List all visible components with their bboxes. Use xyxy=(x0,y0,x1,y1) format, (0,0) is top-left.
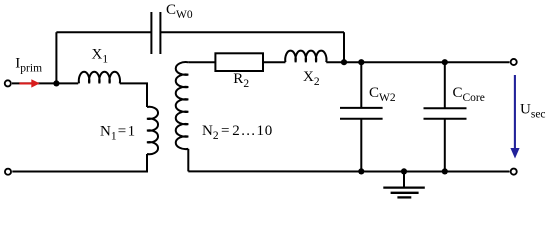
wire X2 to top-right terminal xyxy=(326,61,509,63)
wire bottom rail xyxy=(188,170,509,172)
capacitor CCore top lead xyxy=(444,62,446,108)
wire input left to junction xyxy=(12,82,56,84)
wire CW0 right plate to right drop xyxy=(160,31,344,33)
wire junction up to top row xyxy=(55,32,57,83)
capacitor CCore top plate xyxy=(424,107,467,109)
wire secondary bottom down to bottom rail xyxy=(187,149,189,172)
junction dot A (input node) xyxy=(53,80,59,86)
capacitor CCore bottom plate xyxy=(424,118,467,120)
ground lead xyxy=(403,171,405,187)
capacitor CW0 right plate xyxy=(159,12,161,54)
wire primary bottom to bottom-left terminal xyxy=(12,154,147,172)
capacitor CW2 bottom lead xyxy=(360,119,362,172)
wire drop from top row to X2 node xyxy=(343,32,345,62)
terminal input top xyxy=(5,80,11,86)
wire X1 to primary corner xyxy=(120,83,147,107)
junction dot D (CCore top) xyxy=(442,59,448,65)
terminal input bottom xyxy=(5,169,11,175)
current arrow Iprim xyxy=(19,79,39,87)
capacitor CW0 left plate xyxy=(150,12,152,54)
junction dot F (ground node) xyxy=(401,168,407,174)
wire junction to X1 xyxy=(56,82,78,84)
capacitor CW2 top lead xyxy=(360,62,362,108)
capacitor CW2 top plate xyxy=(340,107,383,109)
terminal output top xyxy=(511,59,517,65)
wire R2 to X2 xyxy=(263,61,285,63)
voltage arrow Usec xyxy=(510,75,519,159)
junction dot C (CW2 top) xyxy=(358,59,364,65)
resistor R2 xyxy=(215,53,263,71)
inductor X1 xyxy=(79,72,120,84)
ground bar 3 xyxy=(397,196,411,198)
inductor X2 xyxy=(285,51,326,63)
junction dot G (CCore bottom) xyxy=(442,168,448,174)
ground bar 2 xyxy=(391,192,419,194)
junction dot B (CW0 return / X2 node) xyxy=(341,59,347,65)
ground bar 1 xyxy=(383,186,425,188)
wire top row to CW0 left plate xyxy=(56,31,151,33)
terminal output bottom xyxy=(511,169,517,175)
capacitor CCore bottom lead xyxy=(444,119,446,172)
capacitor CW2 bottom plate xyxy=(340,118,383,120)
junction dot E (CW2 bottom) xyxy=(358,168,364,174)
transformer primary winding N1 xyxy=(147,107,158,154)
wire secondary top to R2 xyxy=(188,61,215,63)
transformer secondary winding N2 xyxy=(176,62,189,149)
